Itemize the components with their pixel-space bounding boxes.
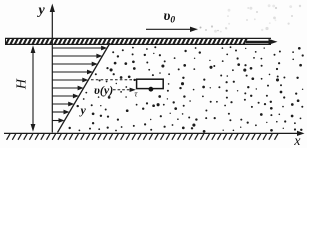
svg-text:H: H: [15, 78, 30, 90]
velocity profile diagonal line: [58, 43, 111, 133]
fluid dots (liquid between plates): [69, 46, 304, 133]
dashed leader line at height y: [91, 79, 137, 81]
v0 arrow: [146, 27, 198, 32]
top moving plate (hatched strip): [5, 38, 271, 44]
velocity profile arrow 10 (y=120.5): [52, 118, 64, 123]
velocity profile arrow 6 (y=88): [52, 86, 83, 91]
velocity profile arrow 1 (y=48): [52, 46, 107, 51]
svg-text:y: y: [37, 3, 46, 18]
dashed arrow from v(y) to element: [113, 88, 136, 92]
svg-text:y: y: [79, 103, 87, 117]
velocity profile arrow 5 (y=80): [52, 78, 88, 83]
velocity profile arrow 8 (y=104): [52, 102, 74, 107]
svg-text:υ(y): υ(y): [94, 83, 113, 97]
fluid element center dot: [149, 87, 154, 92]
fluid element (rectangle): [137, 79, 164, 88]
y-axis: [50, 4, 55, 133]
velocity profile arrow 3 (y=64): [52, 62, 97, 67]
velocity profile arrow 9 (y=112): [52, 110, 69, 115]
bottom plate / x-axis: [4, 131, 305, 140]
velocity profile arrow 2 (y=56): [52, 54, 102, 59]
velocity profile arrow 4 (y=72): [52, 70, 93, 75]
velocity profile arrow 7 (y=96): [52, 94, 79, 99]
svg-text:x: x: [293, 134, 301, 148]
H dimension line with arrowheads: [31, 45, 36, 132]
top plate motion arrow (right end): [246, 39, 278, 45]
